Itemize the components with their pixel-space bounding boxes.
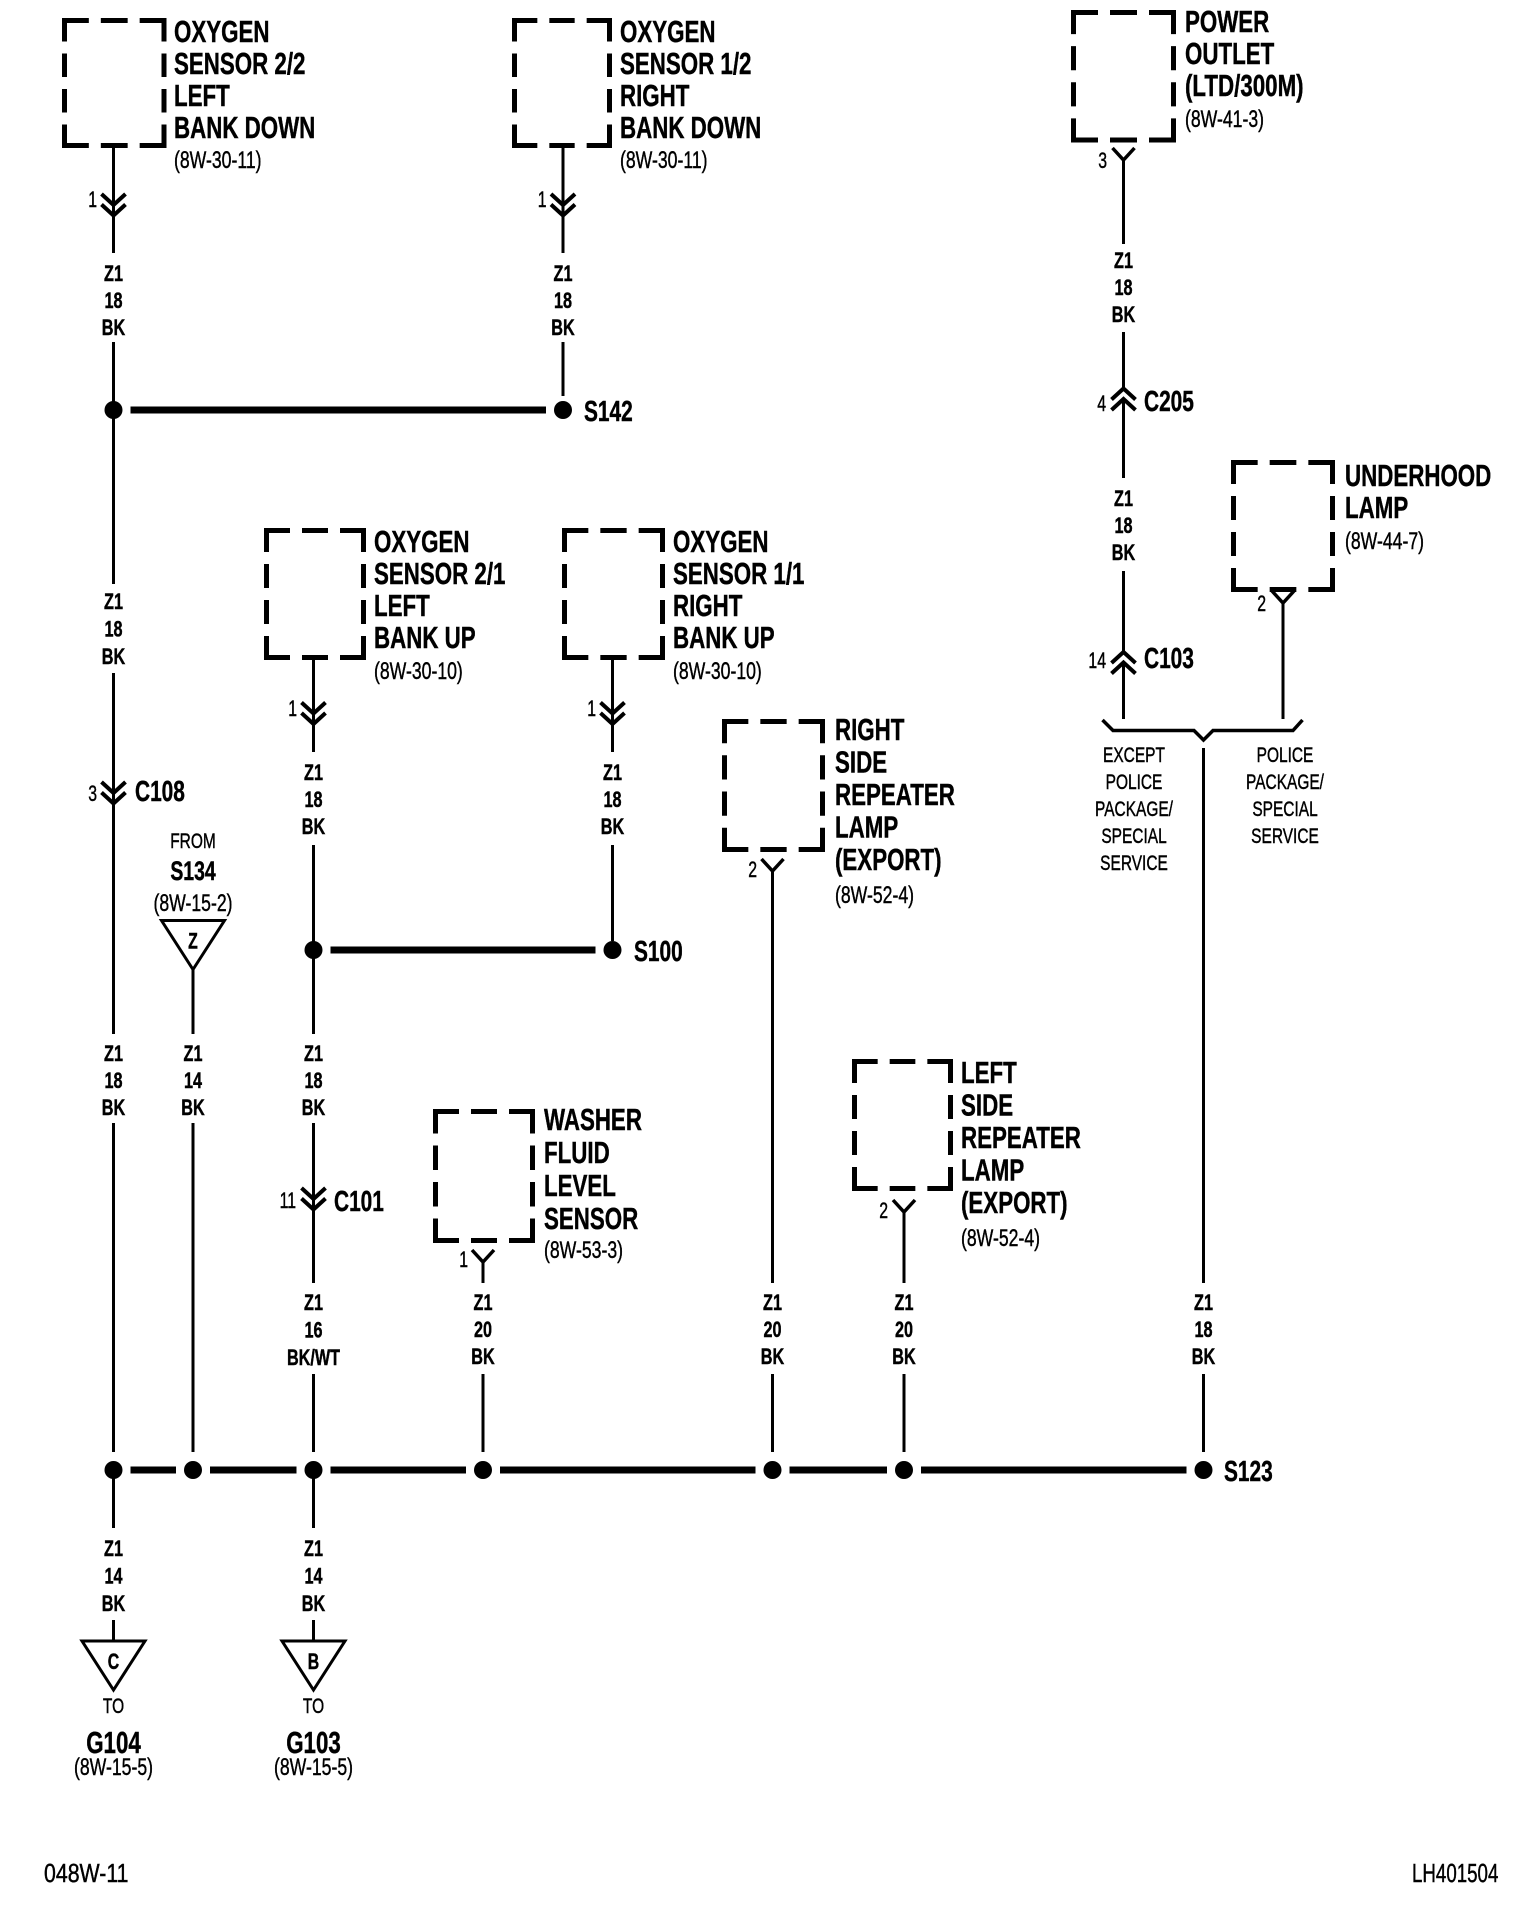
svg-text:1: 1 — [288, 698, 297, 722]
svg-text:(8W-52-4): (8W-52-4) — [835, 881, 914, 909]
connector box: RIGHT SIDE REPEATER LAMP (EXPORT) — [722, 712, 955, 908]
svg-text:LAMP: LAMP — [1345, 490, 1408, 524]
svg-text:18: 18 — [1194, 1317, 1212, 1342]
off-page triangle Z (from S134) — [162, 921, 225, 970]
svg-text:SENSOR 1/2: SENSOR 1/2 — [620, 46, 751, 80]
svg-text:C108: C108 — [135, 776, 185, 808]
connector box: OXYGEN SENSOR 2/1 LEFT BANK UP — [264, 524, 505, 684]
svg-text:4: 4 — [1097, 393, 1106, 417]
svg-text:11: 11 — [280, 1190, 296, 1214]
junction dot S142 — [554, 396, 633, 428]
svg-text:048W-11: 048W-11 — [44, 1859, 129, 1889]
junction dot col A on S123 — [105, 1461, 123, 1479]
svg-text:OXYGEN: OXYGEN — [374, 524, 469, 558]
svg-text:UNDERHOOD: UNDERHOOD — [1345, 458, 1491, 492]
wire: O2 sensor 2/1 down to S100 and C101 to S123 — [312, 660, 315, 1452]
wire label Z1 18 BK (col A lower) — [102, 1041, 125, 1120]
splice S123 bus — [131, 1467, 1187, 1474]
svg-text:BK: BK — [102, 1095, 125, 1120]
svg-text:SENSOR 2/1: SENSOR 2/1 — [374, 556, 505, 590]
connector box: OXYGEN SENSOR 1/1 RIGHT BANK UP — [562, 524, 804, 684]
svg-text:LEFT: LEFT — [374, 588, 430, 622]
svg-text:(8W-30-11): (8W-30-11) — [620, 146, 708, 174]
wire: underhood lamp down to brace — [1282, 603, 1285, 719]
wire label Z1 18 BK (col I lower) — [1112, 486, 1135, 565]
svg-text:BK: BK — [1192, 1344, 1215, 1369]
connector half pin 1 of oxygen sensor 2/1 — [288, 698, 325, 724]
option label POLICE PACKAGE/SPECIAL SERVICE — [1246, 742, 1325, 847]
svg-text:OXYGEN: OXYGEN — [174, 14, 269, 48]
in-line connector C108 pin 3 — [88, 776, 185, 808]
svg-text:3: 3 — [88, 783, 97, 807]
svg-text:Z1: Z1 — [104, 1041, 123, 1066]
svg-text:SENSOR: SENSOR — [544, 1201, 638, 1235]
svg-text:BK: BK — [102, 315, 125, 340]
svg-text:Z1: Z1 — [554, 261, 573, 286]
sheet number 048W-11 — [44, 1859, 129, 1889]
svg-text:RIGHT: RIGHT — [620, 78, 690, 112]
junction dot col C on S123 — [305, 1461, 323, 1479]
connector box: OXYGEN SENSOR 2/2 LEFT BANK DOWN — [62, 14, 315, 173]
svg-text:LEVEL: LEVEL — [544, 1168, 616, 1202]
svg-text:BK: BK — [601, 814, 624, 839]
svg-text:(EXPORT): (EXPORT) — [961, 1185, 1068, 1219]
svg-text:TO: TO — [303, 1693, 324, 1717]
connector box: LEFT SIDE REPEATER LAMP (EXPORT) — [852, 1055, 1081, 1251]
connector half pin 1 of oxygen sensor 1/2 — [538, 189, 575, 216]
svg-text:18: 18 — [304, 1068, 322, 1093]
svg-text:2: 2 — [1257, 593, 1266, 617]
svg-text:BK: BK — [1112, 302, 1135, 327]
svg-text:2: 2 — [879, 1200, 888, 1224]
wire label Z1 14 BK (col A bottom) — [102, 1536, 125, 1616]
svg-text:OUTLET: OUTLET — [1185, 36, 1275, 70]
wire label Z1 14 BK (col B) — [181, 1041, 204, 1120]
svg-text:Z1: Z1 — [474, 1290, 493, 1315]
in-line connector C101 pin 11 — [280, 1186, 384, 1218]
svg-text:2: 2 — [748, 859, 757, 883]
svg-text:20: 20 — [474, 1317, 492, 1342]
svg-text:FROM: FROM — [170, 828, 216, 852]
wire: S123 down to ground C (Z1 14 BK) — [112, 1478, 115, 1640]
svg-text:LEFT: LEFT — [174, 78, 230, 112]
svg-text:Z1: Z1 — [304, 1536, 323, 1561]
junction dot S123 — [1195, 1456, 1273, 1488]
svg-text:BK: BK — [892, 1344, 915, 1369]
svg-text:RIGHT: RIGHT — [673, 588, 743, 622]
terminal pin 3 of power outlet — [1098, 148, 1134, 174]
wire: left repeater down to S123 (Z1 20 BK) — [903, 1212, 906, 1452]
svg-text:S134: S134 — [170, 856, 215, 886]
ground label TO G103 — [274, 1693, 353, 1780]
svg-text:REPEATER: REPEATER — [961, 1120, 1081, 1154]
svg-text:BK: BK — [302, 814, 325, 839]
svg-text:BK: BK — [761, 1344, 784, 1369]
wire: C205 down to C103 (Z1 18 BK) — [1122, 399, 1125, 652]
wire label Z1 18 BK (col E) — [551, 261, 574, 340]
svg-text:Z1: Z1 — [304, 760, 323, 785]
terminal pin 2 of right side repeater lamp — [748, 859, 783, 883]
svg-text:OXYGEN: OXYGEN — [673, 524, 768, 558]
svg-text:(8W-15-2): (8W-15-2) — [153, 889, 232, 917]
svg-text:BK: BK — [1112, 540, 1135, 565]
connector half pin 1 of oxygen sensor 1/1 — [587, 698, 624, 724]
svg-text:1: 1 — [587, 698, 596, 722]
svg-text:EXCEPT: EXCEPT — [1103, 742, 1165, 766]
svg-text:Z1: Z1 — [603, 760, 622, 785]
svg-text:B: B — [308, 1651, 319, 1675]
svg-text:BK: BK — [181, 1095, 204, 1120]
svg-text:18: 18 — [603, 787, 621, 812]
svg-text:18: 18 — [304, 787, 322, 812]
svg-text:LH401504: LH401504 — [1412, 1858, 1498, 1888]
svg-text:C103: C103 — [1144, 643, 1194, 675]
terminal pin 1 of washer fluid level sensor — [459, 1249, 494, 1273]
connector box: UNDERHOOD LAMP — [1231, 458, 1491, 592]
sheet code LH401504 — [1412, 1858, 1498, 1888]
terminal pin 2 of left side repeater lamp — [879, 1200, 915, 1224]
svg-text:S123: S123 — [1224, 1456, 1273, 1488]
svg-text:RIGHT: RIGHT — [835, 712, 905, 746]
svg-text:SPECIAL: SPECIAL — [1101, 823, 1166, 847]
svg-text:WASHER: WASHER — [544, 1102, 642, 1136]
svg-text:BANK UP: BANK UP — [374, 620, 476, 654]
svg-text:Z1: Z1 — [104, 261, 123, 286]
svg-text:OXYGEN: OXYGEN — [620, 14, 715, 48]
svg-text:Z1: Z1 — [1114, 486, 1133, 511]
connector box: OXYGEN SENSOR 1/2 RIGHT BANK DOWN — [512, 14, 761, 173]
svg-text:SIDE: SIDE — [961, 1088, 1013, 1122]
svg-text:C: C — [108, 1651, 120, 1675]
svg-text:18: 18 — [1114, 513, 1132, 538]
wire label Z1 18 BK (col I upper) — [1112, 248, 1135, 327]
svg-text:14: 14 — [184, 1068, 202, 1093]
svg-text:(8W-30-11): (8W-30-11) — [174, 146, 262, 174]
svg-text:SIDE: SIDE — [835, 745, 887, 779]
svg-text:BK: BK — [102, 644, 125, 669]
wire label Z1 18 BK (col C below S100) — [302, 1041, 325, 1120]
svg-text:S142: S142 — [584, 396, 633, 428]
junction dot col D on S123 — [474, 1461, 492, 1479]
svg-text:Z1: Z1 — [1194, 1290, 1213, 1315]
wire label Z1 14 BK (col C bottom) — [302, 1536, 325, 1616]
svg-text:BK/WT: BK/WT — [287, 1345, 340, 1370]
svg-text:BK: BK — [302, 1591, 325, 1616]
svg-text:18: 18 — [104, 288, 122, 313]
svg-text:SERVICE: SERVICE — [1100, 850, 1168, 874]
svg-text:TO: TO — [103, 1693, 124, 1717]
wire: C103 down to brace — [1122, 661, 1125, 719]
splice S100 bus — [331, 947, 596, 954]
svg-text:(8W-53-3): (8W-53-3) — [544, 1236, 623, 1264]
wire: O2 sensor 1/1 down to S100 (Z1 18 BK) — [611, 660, 614, 941]
wire: O2 sensor 2/2 down to S142 and S123 (Z1 18 BK) — [112, 148, 115, 1452]
splice S142 bus — [131, 407, 547, 414]
connector box: WASHER FLUID LEVEL SENSOR — [433, 1102, 642, 1263]
wire: S123 down to ground B (Z1 14 BK) — [312, 1478, 315, 1640]
in-line connector C205 pin 4 — [1097, 386, 1194, 418]
svg-text:Z1: Z1 — [104, 589, 123, 614]
svg-text:Z1: Z1 — [1114, 248, 1133, 273]
svg-text:14: 14 — [1088, 650, 1106, 674]
svg-text:20: 20 — [763, 1317, 781, 1342]
svg-text:LAMP: LAMP — [961, 1153, 1024, 1187]
wire: from triangle Z down to S123 (Z1 14 BK) — [192, 969, 195, 1452]
svg-text:PACKAGE/: PACKAGE/ — [1246, 769, 1325, 793]
svg-text:Z: Z — [188, 930, 198, 954]
wire label Z1 18 BK (col K) — [1192, 1290, 1215, 1369]
svg-text:(8W-15-5): (8W-15-5) — [274, 1753, 353, 1781]
svg-text:14: 14 — [304, 1564, 322, 1589]
svg-text:1: 1 — [88, 189, 97, 213]
wire: O2 sensor 1/2 down to S142 (Z1 18 BK) — [562, 148, 565, 396]
wire label Z1 18 BK (col F) — [601, 760, 624, 839]
wire: right repeater down to S123 (Z1 20 BK) — [771, 871, 774, 1452]
wire: power outlet down to C205 (Z1 18 BK) — [1122, 160, 1125, 388]
svg-text:Z1: Z1 — [184, 1041, 203, 1066]
wire label Z1 18 BK (col C upper) — [302, 760, 325, 839]
junction dot at col C on S100 — [305, 941, 323, 959]
feed FROM S134 label — [153, 828, 232, 916]
svg-text:18: 18 — [104, 617, 122, 642]
terminal pin 2 of underhood lamp — [1257, 591, 1294, 617]
svg-text:Z1: Z1 — [304, 1290, 323, 1315]
wire: washer sensor down to S123 (Z1 20 BK) — [482, 1262, 485, 1452]
svg-text:Z1: Z1 — [895, 1290, 914, 1315]
svg-text:3: 3 — [1098, 150, 1107, 174]
svg-text:LAMP: LAMP — [835, 810, 898, 844]
wire: brace down to S123 (Z1 18 BK) — [1202, 748, 1205, 1452]
svg-text:BK: BK — [102, 1591, 125, 1616]
wire label Z1 16 BK/WT — [287, 1290, 340, 1370]
wire label Z1 20 BK (col H) — [892, 1290, 915, 1369]
wire label Z1 18 BK (col A upper) — [102, 261, 125, 340]
svg-text:(EXPORT): (EXPORT) — [835, 842, 942, 876]
junction dot at col A on S142 — [105, 401, 123, 419]
junction dot col H on S123 — [895, 1461, 913, 1479]
connector half pin 1 of oxygen sensor 2/2 — [88, 189, 125, 216]
svg-text:(LTD/300M): (LTD/300M) — [1185, 68, 1304, 102]
svg-text:Z1: Z1 — [304, 1041, 323, 1066]
svg-text:Z1: Z1 — [104, 1536, 123, 1561]
ground label TO G104 — [74, 1693, 153, 1780]
svg-text:16: 16 — [304, 1318, 322, 1343]
connector box: POWER OUTLET (LTD/300M) — [1071, 4, 1304, 142]
svg-text:(8W-30-10): (8W-30-10) — [673, 657, 762, 685]
wire label Z1 20 BK (col D) — [471, 1290, 494, 1369]
svg-text:SENSOR 2/2: SENSOR 2/2 — [174, 46, 305, 80]
off-page triangle C (to G104) — [82, 1641, 145, 1690]
svg-text:LEFT: LEFT — [961, 1055, 1017, 1089]
svg-text:(8W-44-7): (8W-44-7) — [1345, 527, 1424, 555]
svg-text:SERVICE: SERVICE — [1251, 823, 1319, 847]
svg-text:REPEATER: REPEATER — [835, 777, 955, 811]
svg-text:BK: BK — [471, 1344, 494, 1369]
option label EXCEPT POLICE PACKAGE/SPECIAL SERVICE — [1095, 742, 1174, 874]
junction dot col G on S123 — [764, 1461, 782, 1479]
svg-text:BANK DOWN: BANK DOWN — [174, 110, 315, 144]
svg-text:(8W-41-3): (8W-41-3) — [1185, 105, 1264, 133]
svg-text:POWER: POWER — [1185, 4, 1269, 38]
svg-text:(8W-15-5): (8W-15-5) — [74, 1753, 153, 1781]
svg-text:18: 18 — [1114, 275, 1132, 300]
svg-text:(8W-52-4): (8W-52-4) — [961, 1224, 1040, 1252]
svg-text:PACKAGE/: PACKAGE/ — [1095, 796, 1174, 820]
svg-text:14: 14 — [104, 1564, 122, 1589]
svg-text:POLICE: POLICE — [1106, 769, 1163, 793]
brace joining except-police and police wires — [1103, 720, 1303, 740]
off-page triangle B (to G103) — [282, 1641, 345, 1690]
svg-text:SENSOR 1/1: SENSOR 1/1 — [673, 556, 804, 590]
svg-text:BK: BK — [551, 315, 574, 340]
svg-text:1: 1 — [538, 189, 547, 213]
junction dot col B on S123 — [184, 1461, 202, 1479]
svg-text:Z1: Z1 — [763, 1290, 782, 1315]
svg-text:BANK DOWN: BANK DOWN — [620, 110, 761, 144]
svg-text:S100: S100 — [634, 936, 683, 968]
svg-text:SPECIAL: SPECIAL — [1252, 796, 1317, 820]
svg-text:C101: C101 — [334, 1186, 384, 1218]
wire label Z1 18 BK (col A mid) — [102, 589, 125, 669]
svg-text:(8W-30-10): (8W-30-10) — [374, 657, 463, 685]
wire label Z1 20 BK (col G) — [761, 1290, 784, 1369]
svg-text:BK: BK — [302, 1095, 325, 1120]
svg-text:18: 18 — [554, 288, 572, 313]
svg-text:C205: C205 — [1144, 386, 1194, 418]
junction dot S100 — [604, 936, 683, 968]
svg-text:20: 20 — [895, 1317, 913, 1342]
svg-text:1: 1 — [459, 1249, 468, 1273]
in-line connector C103 pin 14 — [1088, 643, 1194, 675]
svg-text:POLICE: POLICE — [1257, 742, 1314, 766]
svg-text:FLUID: FLUID — [544, 1135, 610, 1169]
svg-text:BANK UP: BANK UP — [673, 620, 775, 654]
svg-text:18: 18 — [104, 1068, 122, 1093]
